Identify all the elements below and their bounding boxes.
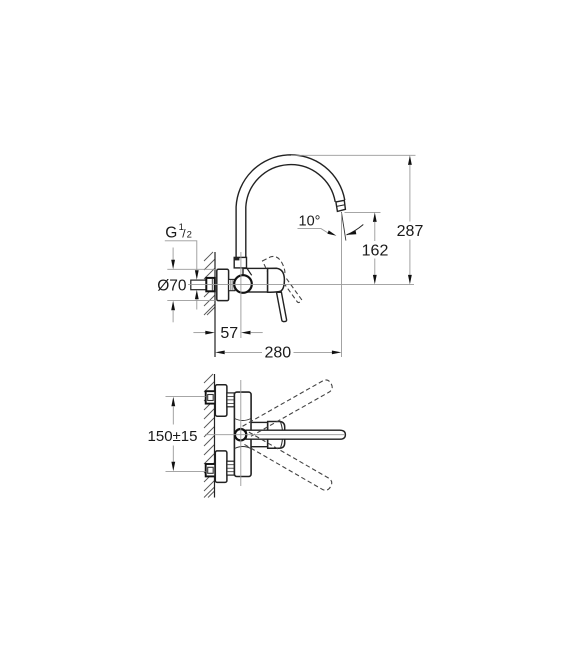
svg-text:2: 2 [187,230,192,241]
svg-text:Ø70: Ø70 [157,277,187,294]
svg-text:57: 57 [220,325,238,342]
svg-text:280: 280 [264,344,291,361]
svg-text:287: 287 [397,223,424,240]
svg-text:10°: 10° [299,214,321,230]
svg-text:150±15: 150±15 [148,428,198,445]
svg-text:G: G [165,224,177,241]
svg-text:162: 162 [362,243,389,260]
